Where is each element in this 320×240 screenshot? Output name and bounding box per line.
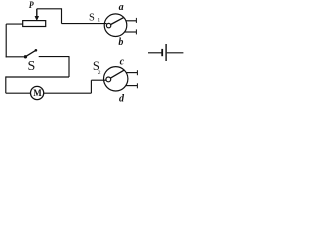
wire vertical step down (61, 8, 63, 23)
contact b stub (125, 31, 137, 33)
battery positive tall plate (165, 44, 167, 61)
switch S2 circle (104, 67, 128, 91)
svg-text:M: M (33, 88, 42, 98)
switch S1 circle (104, 14, 127, 37)
wire motor right (44, 92, 91, 94)
battery negative short plate (161, 49, 163, 56)
motor M circle (30, 86, 43, 99)
rheostat P body (23, 21, 46, 27)
contact c stub (126, 72, 137, 74)
svg-text:S: S (28, 59, 36, 74)
wire top from slider right (37, 8, 62, 10)
contact c T-bar (136, 70, 138, 75)
switch S1 pivot (106, 23, 110, 27)
wire to S2 pivot (91, 79, 106, 81)
contact d stub (126, 85, 138, 87)
switch S1 lever (111, 18, 124, 25)
switch S lever tip dot (35, 49, 38, 52)
svg-text:b: b (118, 37, 123, 48)
wire left vertical upper (5, 24, 7, 57)
rheostat slider arrow (35, 9, 39, 21)
switch S2 lever (111, 70, 125, 78)
switch S pivot dot (24, 55, 27, 58)
wire left vertical lower (5, 76, 7, 93)
svg-text:d: d (119, 94, 125, 105)
battery left wire (148, 52, 162, 54)
svg-text:a: a (119, 2, 124, 13)
wire rheostat left (6, 23, 22, 25)
svg-text:S: S (89, 13, 95, 24)
wire to motor (6, 92, 30, 94)
wire vertical down right of switch (68, 56, 70, 77)
battery right wire (167, 52, 184, 54)
svg-text:2: 2 (98, 70, 101, 76)
svg-text:P: P (29, 1, 34, 11)
contact a T-bar (135, 18, 137, 23)
wire vertical up to S2 (90, 80, 92, 93)
wire to S1 pivot (62, 23, 107, 25)
wire middle horizontal (6, 76, 69, 78)
svg-text:c: c (120, 56, 125, 67)
wire to switch S pivot (6, 56, 24, 58)
switch S2 pivot (106, 77, 111, 82)
contact d T-bar (136, 83, 138, 88)
switch S lever (27, 50, 36, 56)
wire switch right (39, 56, 69, 58)
contact a stub (126, 20, 136, 22)
contact b T-bar (135, 29, 137, 34)
svg-text:1: 1 (97, 17, 100, 23)
